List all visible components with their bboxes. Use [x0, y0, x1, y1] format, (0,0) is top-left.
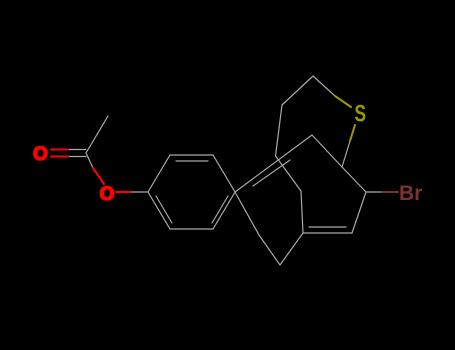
svg-text:O: O — [33, 144, 48, 165]
svg-text:O: O — [100, 184, 115, 205]
svg-text:S: S — [355, 101, 367, 127]
svg-text:Br: Br — [399, 182, 422, 205]
